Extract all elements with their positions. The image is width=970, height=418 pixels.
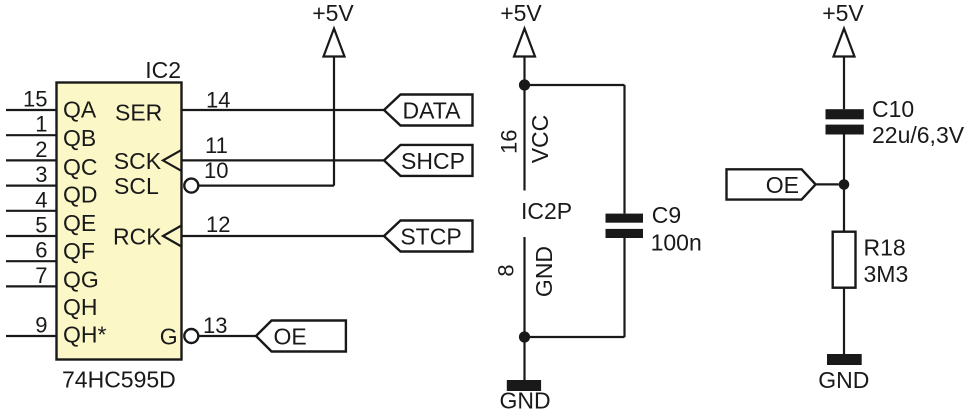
svg-text:QD: QD bbox=[63, 182, 98, 208]
svg-text:GND: GND bbox=[531, 246, 557, 297]
svg-text:QH*: QH* bbox=[63, 321, 107, 347]
svg-text:10: 10 bbox=[204, 158, 228, 183]
svg-text:100n: 100n bbox=[651, 230, 702, 256]
svg-text:GND: GND bbox=[818, 367, 869, 393]
svg-text:QF: QF bbox=[63, 238, 95, 264]
svg-text:SCK: SCK bbox=[114, 148, 162, 174]
svg-text:IC2: IC2 bbox=[145, 57, 181, 83]
svg-text:3: 3 bbox=[35, 162, 47, 187]
svg-text:IC2P: IC2P bbox=[521, 198, 572, 224]
svg-text:QE: QE bbox=[63, 210, 96, 236]
svg-text:RCK: RCK bbox=[113, 223, 162, 249]
svg-text:22u/6,3V: 22u/6,3V bbox=[872, 122, 965, 148]
svg-text:14: 14 bbox=[206, 88, 230, 113]
svg-text:7: 7 bbox=[35, 263, 47, 288]
svg-text:8: 8 bbox=[494, 264, 519, 276]
svg-text:G: G bbox=[160, 323, 178, 349]
svg-text:4: 4 bbox=[35, 187, 47, 212]
svg-text:5: 5 bbox=[35, 213, 47, 238]
svg-text:OE: OE bbox=[766, 172, 799, 198]
svg-text:13: 13 bbox=[203, 313, 227, 338]
svg-text:OE: OE bbox=[274, 323, 307, 349]
svg-text:C9: C9 bbox=[652, 202, 681, 228]
svg-text:74HC595D: 74HC595D bbox=[62, 367, 176, 393]
svg-text:QH: QH bbox=[63, 294, 98, 320]
svg-text:SER: SER bbox=[115, 99, 162, 125]
svg-text:QB: QB bbox=[63, 125, 96, 151]
svg-text:9: 9 bbox=[35, 313, 47, 338]
svg-text:2: 2 bbox=[35, 137, 47, 162]
svg-text:SCL: SCL bbox=[114, 173, 159, 199]
svg-text:SHCP: SHCP bbox=[401, 148, 465, 174]
svg-text:+5V: +5V bbox=[312, 0, 354, 26]
svg-text:+5V: +5V bbox=[822, 0, 864, 26]
svg-text:QG: QG bbox=[63, 267, 99, 293]
svg-text:6: 6 bbox=[35, 238, 47, 263]
svg-text:1: 1 bbox=[35, 112, 47, 137]
svg-text:C10: C10 bbox=[872, 96, 914, 122]
svg-text:+5V: +5V bbox=[500, 0, 542, 26]
svg-text:QA: QA bbox=[63, 97, 97, 123]
svg-text:DATA: DATA bbox=[403, 97, 462, 123]
svg-text:QC: QC bbox=[63, 154, 98, 180]
svg-text:12: 12 bbox=[206, 212, 230, 237]
svg-text:VCC: VCC bbox=[527, 115, 553, 164]
svg-text:R18: R18 bbox=[864, 235, 906, 261]
svg-text:11: 11 bbox=[205, 133, 228, 158]
svg-text:GND: GND bbox=[499, 387, 550, 413]
svg-text:16: 16 bbox=[497, 129, 522, 153]
svg-text:3M3: 3M3 bbox=[864, 261, 909, 287]
svg-text:15: 15 bbox=[23, 87, 47, 112]
svg-text:STCP: STCP bbox=[400, 223, 461, 249]
